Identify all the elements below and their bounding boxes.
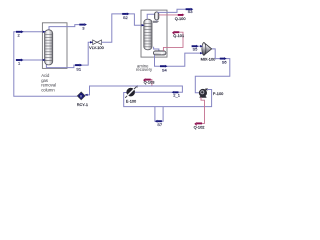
recycle RCY-1 (77, 92, 85, 100)
arrowhead stream S5 into mixer (200, 45, 203, 47)
svg-text:S5: S5 (193, 47, 199, 52)
regenerator column T-101 (144, 19, 152, 50)
stream S3 marker (186, 8, 194, 11)
wire reboiler feed from column (154, 47, 159, 51)
wire mixer outlet S6 to pump (195, 49, 230, 93)
svg-text:P-100: P-100 (213, 91, 224, 96)
stream S5 marker (192, 45, 199, 48)
arrowhead stream 2_1 into recycle (85, 94, 88, 96)
arrowhead stream S1 into valve (90, 41, 93, 43)
wire stream S7 dip (155, 107, 163, 122)
wire absorber bottoms S1 to valve (46, 42, 92, 67)
wire absorber overhead to stream 3 (49, 25, 80, 31)
wire energy Q-103 from cooler (151, 80, 152, 86)
wire energy Q-102 from pump (201, 97, 205, 123)
wire cooler outlet 2_1 to recycle (85, 86, 182, 95)
wire stream 2 recycle from RCY-1 to absorber top (14, 32, 78, 96)
wire stream 1 feed (16, 59, 45, 61)
stream S4 marker (160, 65, 168, 68)
energy Q-103 marker (143, 78, 151, 82)
arrowhead stream S4 into mixer (200, 52, 203, 54)
energy Q-101 marker (172, 31, 179, 35)
wire regenerator overhead to condenser (147, 14, 155, 19)
reboiler drum (153, 51, 166, 55)
regenerator sub-flowsheet boundary box (141, 10, 167, 57)
absorber sub-flowsheet boundary box (42, 23, 67, 69)
stream S2 marker (122, 12, 129, 15)
arrowhead stream 1 into absorber (43, 59, 46, 61)
svg-text:S6: S6 (222, 59, 228, 64)
stream S7 marker (155, 120, 162, 123)
wire bottoms S4 to mixer (155, 53, 203, 66)
svg-text:S4: S4 (162, 68, 168, 73)
arrowhead stream S2 into regenerator (142, 24, 145, 26)
svg-text:Q-100: Q-100 (175, 16, 187, 21)
svg-text:RCY-1: RCY-1 (77, 102, 88, 107)
svg-text:E-100: E-100 (126, 98, 137, 103)
stream 1 marker (16, 59, 24, 62)
wire energy Q-101 to reboiler (163, 32, 183, 51)
stream S6 marker (220, 57, 227, 60)
condenser drum (155, 12, 159, 20)
svg-text:Q-101: Q-101 (173, 33, 184, 38)
condenser tiny label (153, 21, 159, 22)
svg-text:Q-102: Q-102 (194, 124, 205, 129)
mixer MIX-100 (202, 43, 212, 56)
valve VLV-100 (93, 40, 102, 45)
svg-text:Q-103: Q-103 (144, 79, 155, 84)
wire energy Q-100 from condenser (159, 14, 178, 16)
svg-text:VLV-100: VLV-100 (89, 45, 104, 50)
svg-text:MIX-100: MIX-100 (201, 56, 217, 61)
wire condenser bottom stub (156, 19, 158, 22)
wire pump outlet S7 long line to cooler (124, 90, 212, 107)
stream 2_1 marker (172, 91, 179, 94)
energy Q-102 marker (194, 122, 202, 126)
stream 3 marker (79, 23, 87, 26)
svg-text:S1: S1 (76, 67, 82, 72)
pump P-100 (199, 89, 208, 98)
svg-text:S2: S2 (123, 15, 129, 20)
arrowhead stream 2 into absorber (43, 31, 46, 33)
absorber column T-100 (45, 30, 53, 65)
wire valve outlet S2 to regenerator (102, 14, 145, 42)
svg-text:S3: S3 (188, 9, 194, 14)
energy Q-100 marker (178, 14, 185, 17)
wire condenser top to stream S3 (157, 9, 186, 12)
stream S1 marker (75, 64, 82, 67)
svg-text:S7: S7 (157, 122, 163, 127)
stream 2 marker (16, 30, 24, 33)
svg-text:2_1: 2_1 (173, 92, 180, 97)
cooler E-100 (125, 85, 138, 98)
wire makeup stream S5 to mixer (197, 45, 203, 47)
